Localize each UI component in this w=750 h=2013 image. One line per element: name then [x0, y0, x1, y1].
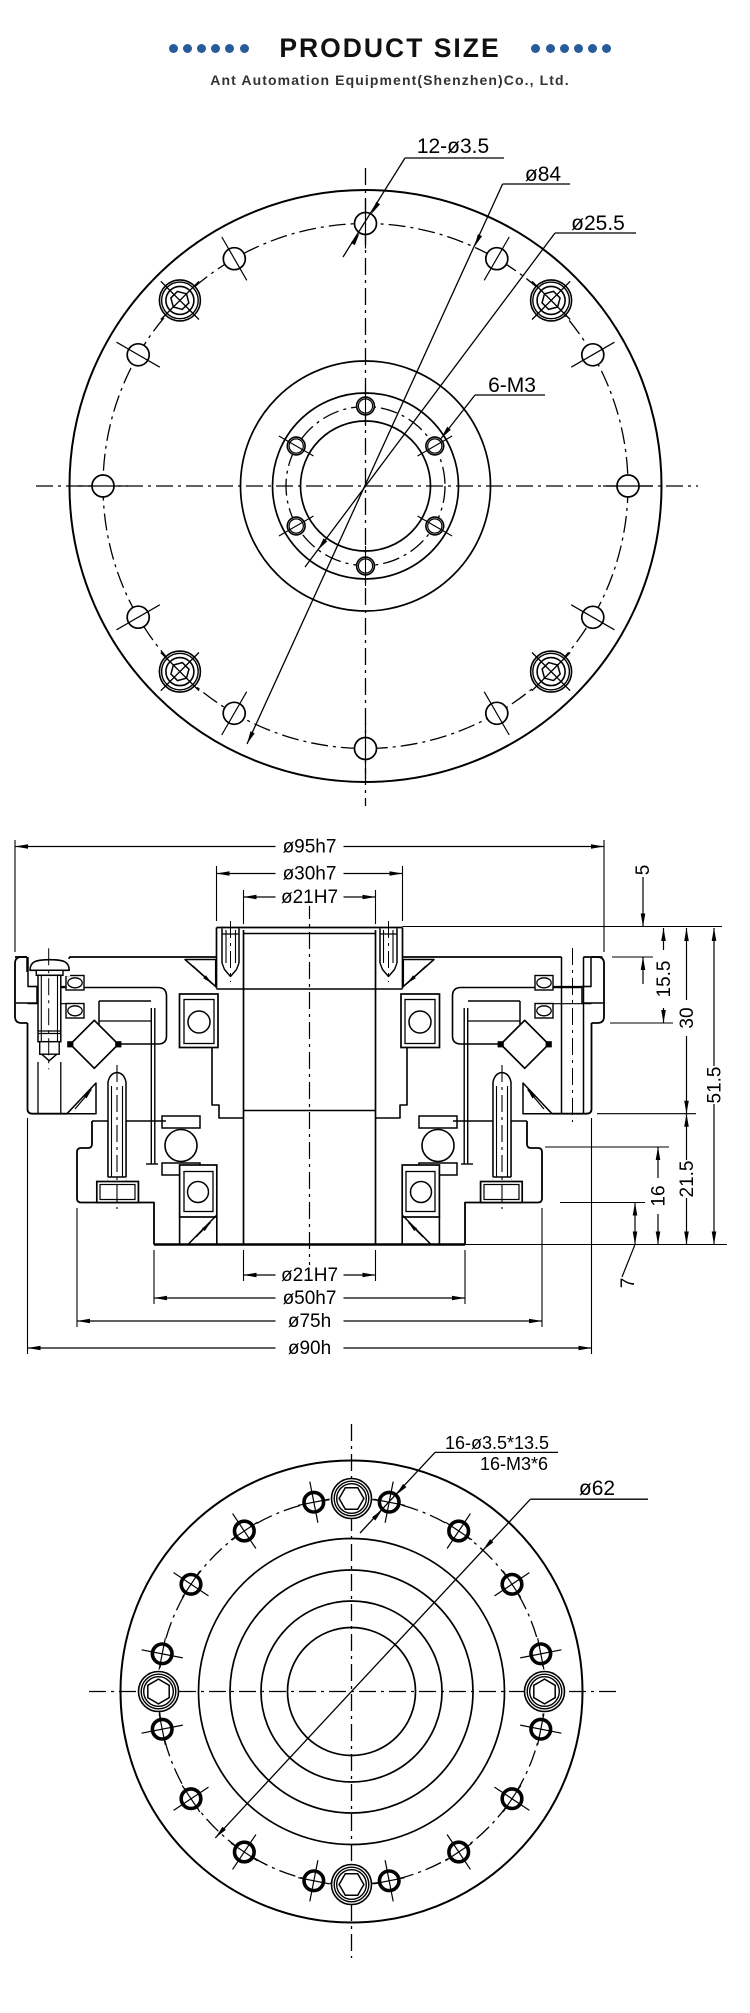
flexspline thin wall: [150, 1008, 152, 1164]
hole 3.5 dia at 30 deg: [582, 344, 604, 366]
svg-text:ø21H7: ø21H7: [281, 1265, 338, 1286]
main centerline: [309, 902, 311, 1265]
hole 3.5 dia at 0 deg: [617, 475, 639, 497]
svg-text:ø95h7: ø95h7: [283, 837, 337, 858]
rotor shoulder line: [217, 988, 403, 990]
socket screw at 135 deg: [142, 262, 218, 338]
socket screw at 180 deg: [139, 1672, 179, 1712]
counterbore hole at 168.75 deg: [152, 1644, 172, 1664]
bolt circle OD25.5 (dash-dot): [286, 407, 445, 566]
socket screw at 90 deg: [332, 1479, 372, 1519]
horizontal centerline: [36, 485, 698, 487]
vertical centerline: [351, 1424, 353, 1958]
svg-text:16-ø3.5*13.5: 16-ø3.5*13.5: [445, 1433, 549, 1453]
small bearing ball row lower: [66, 1004, 84, 1019]
flange underside web: [37, 987, 158, 989]
socket screw at 225 deg: [142, 633, 218, 709]
bottom view: [89, 1424, 648, 1958]
ext lines right: [403, 926, 723, 928]
hole 3.5 dia at 210 deg: [127, 606, 149, 628]
M3 hole at 210 deg: [287, 517, 305, 535]
dim OD50h7: [153, 1250, 155, 1304]
vertical centerline: [365, 168, 367, 806]
hole 3.5 dia at 270 deg: [355, 738, 377, 760]
wave bearing ball: [165, 1130, 197, 1162]
counterbore hole at 258.75 deg: [304, 1871, 324, 1891]
svg-text:12-ø3.5: 12-ø3.5: [417, 135, 489, 158]
rotor boss wall: [216, 928, 218, 989]
dim 51.5: [713, 928, 715, 1066]
right side empty hole dia3.5: [561, 957, 563, 1114]
boss top: [217, 927, 403, 929]
top-left bolt through flange: [29, 959, 70, 976]
hole 3.5 dia at 90 deg: [355, 213, 377, 235]
dim OD95h7: [14, 840, 16, 952]
svg-text:21.5: 21.5: [677, 1161, 698, 1198]
bearing race lines: [28, 986, 67, 988]
counterbore hole at 123.75 deg: [235, 1521, 255, 1541]
counterbore hole at 101.25 deg: [304, 1492, 324, 1512]
small bearing ball row upper: [66, 976, 84, 991]
top view: flange face: [36, 135, 698, 806]
svg-text:15.5: 15.5: [654, 961, 675, 998]
svg-text:ø90h: ø90h: [288, 1338, 331, 1359]
rim groove: [16, 957, 37, 1003]
socket screw at 270 deg: [332, 1865, 372, 1905]
dim OD21H7 bottom: [243, 1250, 245, 1281]
rotor wall below bearing: [212, 1048, 244, 1119]
socket screw at 45 deg: [513, 262, 589, 338]
housing outer wall OD90: [28, 1023, 68, 1114]
dim OD30h7: [216, 866, 218, 921]
svg-text:7: 7: [618, 1278, 639, 1289]
hole 3.5 dia at 300 deg: [486, 702, 508, 724]
bolt circle OD62 dash-dot: [159, 1499, 545, 1885]
svg-text:ø25.5: ø25.5: [571, 212, 625, 235]
hole 3.5 dia at 120 deg: [223, 248, 245, 270]
wave bearing top race: [162, 1116, 200, 1128]
top bearing: [180, 994, 219, 1048]
svg-text:6-M3: 6-M3: [488, 374, 536, 397]
counterbore hole at 213.75 deg: [181, 1789, 201, 1809]
svg-text:16: 16: [649, 1185, 670, 1206]
flange top surface: [15, 956, 27, 958]
hole 3.5 dia at 60 deg: [486, 248, 508, 270]
svg-text:5: 5: [633, 865, 654, 876]
counterbore hole at 303.75 deg: [449, 1842, 469, 1862]
carrier hook wall: [126, 988, 167, 1045]
dim 21.5: [686, 1114, 688, 1160]
svg-text:51.5: 51.5: [705, 1067, 726, 1104]
dim OD75h: [76, 1208, 78, 1327]
bore wall: [243, 930, 245, 1245]
counterbore hole at 56.25 deg: [449, 1521, 469, 1541]
flange end left wall: [15, 957, 28, 1023]
dim 16: [657, 1147, 659, 1178]
socket screw at 315 deg: [513, 633, 589, 709]
hole 3.5 dia at 240 deg: [223, 702, 245, 724]
counterbore hole at 348.75 deg: [531, 1719, 551, 1739]
counterbore hole at 33.75 deg: [502, 1575, 522, 1595]
inner circles: [199, 1539, 505, 1845]
counterbore hole at 281.25 deg: [379, 1871, 399, 1891]
bolt recess walls: [26, 957, 28, 972]
counterbore hole at 146.25 deg: [181, 1575, 201, 1595]
bottom flange boss: [77, 1121, 154, 1245]
svg-text:ø84: ø84: [525, 163, 562, 186]
M3 hole at 30 deg: [426, 437, 444, 455]
body bottom edge: [154, 1243, 465, 1245]
svg-text:30: 30: [677, 1007, 698, 1028]
M3 hole at 330 deg: [426, 517, 444, 535]
hole below bolt tip: [37, 1062, 39, 1114]
lower bolt: [108, 1072, 127, 1182]
lower bearing: [180, 1165, 217, 1217]
M3 hole at 150 deg: [287, 437, 305, 455]
counterbore hole at 326.25 deg: [502, 1789, 522, 1809]
counterbore hole at 236.25 deg: [235, 1842, 255, 1862]
dim OD90h: [27, 1118, 29, 1354]
hole 3.5 dia at 330 deg: [582, 606, 604, 628]
lower pocket walls: [179, 1217, 181, 1245]
crossed roller (diamond): [70, 1020, 118, 1068]
dim 5: [642, 877, 644, 927]
hatch triangle housing bottom corner: [67, 1083, 96, 1114]
counterbore hole at 11.25 deg: [531, 1644, 551, 1664]
hole 3.5 dia at 180 deg: [92, 475, 114, 497]
socket screw at 0 deg: [525, 1672, 565, 1712]
counterbore hole at 78.75 deg: [379, 1492, 399, 1512]
set screw M3 in boss: [222, 929, 240, 969]
circle OD30h7: [273, 393, 459, 579]
bolt circle OD84 (dash-dot): [103, 224, 628, 749]
counterbore hole at 191.25 deg: [152, 1719, 172, 1739]
svg-text:ø50h7: ø50h7: [283, 1288, 337, 1309]
bolt hole walls in bottom flange: [107, 1121, 109, 1181]
hatch triangle at boss left: [185, 960, 216, 987]
svg-text:16-M3*6: 16-M3*6: [480, 1454, 548, 1474]
dim 15.5: [663, 928, 665, 950]
svg-text:ø62: ø62: [579, 1477, 615, 1500]
M3 hole at 270 deg: [357, 557, 375, 575]
svg-text:ø75h: ø75h: [288, 1311, 331, 1332]
boss circle: [241, 361, 491, 611]
section view: [15, 837, 727, 1360]
circular spline gear ring: [99, 1000, 151, 1002]
bolt head pocket: [96, 1182, 98, 1203]
horizontal centerline: [89, 1691, 616, 1693]
M3 hole at 90 deg: [357, 397, 375, 415]
dim 7: [634, 1203, 636, 1245]
dim 30: [686, 928, 688, 1000]
hole 3.5 dia at 150 deg: [127, 344, 149, 366]
rotor mid joint line: [244, 1110, 376, 1112]
svg-text:ø30h7: ø30h7: [283, 864, 337, 885]
outer circle OD95: [70, 190, 662, 782]
outer circle: [121, 1461, 583, 1923]
hatch triangle bottom: [188, 1215, 217, 1245]
svg-text:ø21H7: ø21H7: [281, 887, 338, 908]
wave bearing bottom race: [162, 1163, 200, 1175]
bore OD21H7: [301, 421, 431, 551]
dim OD21H7 top: [243, 890, 245, 924]
